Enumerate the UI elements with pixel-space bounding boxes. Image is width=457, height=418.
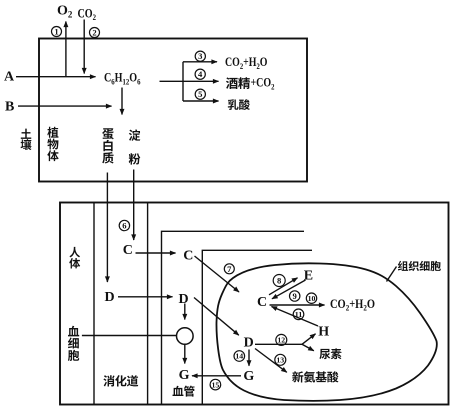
num 9 (290, 291, 300, 301)
label 酒精 (226, 77, 238, 89)
wire: C to E double arrow up (269, 278, 298, 295)
svg-text:1: 1 (54, 27, 58, 37)
svg-text:H: H (318, 325, 329, 340)
svg-text:10: 10 (308, 294, 316, 303)
svg-text:CO2+H2O: CO2+H2O (330, 297, 375, 313)
svg-text:8: 8 (277, 276, 282, 286)
wire: fork up to H (302, 334, 316, 345)
wire: arrow 5 to lactate (183, 100, 219, 102)
svg-text:4: 4 (198, 69, 203, 79)
num 15 (210, 379, 221, 390)
wire: glucose down arrow (121, 88, 123, 115)
label 淀粉 (129, 129, 140, 140)
num 4 (195, 69, 205, 79)
svg-text:3: 3 (198, 51, 202, 61)
svg-text:E: E (304, 269, 313, 284)
svg-text:12: 12 (277, 336, 285, 345)
wire: blood-cell pointer line (82, 335, 176, 337)
svg-text:A: A (4, 69, 15, 84)
svg-text:C6H12O6: C6H12O6 (104, 71, 141, 87)
label 消化道 (103, 375, 114, 386)
svg-text:CO2+H2O: CO2+H2O (225, 55, 268, 71)
box: plant-body outer box (39, 39, 307, 182)
wire: D fork stem (255, 343, 302, 345)
wire: branch input (160, 80, 184, 82)
num 1 (52, 27, 62, 37)
svg-text:2: 2 (92, 28, 96, 38)
wire: C1 to C2 arrow (136, 252, 176, 254)
wire: starch line down (6) (133, 170, 135, 241)
box: human-body outer box (60, 203, 449, 405)
wire: B arrow (18, 105, 112, 107)
wire: D to new amino acid diagonal (255, 349, 287, 373)
label 尿素 (319, 349, 330, 359)
svg-text:C: C (183, 249, 193, 264)
wire: CO2 down arrow (83, 20, 85, 74)
num 6 (119, 220, 129, 230)
wire: O2 up arrow (65, 22, 67, 77)
wire: fork down to urea (302, 344, 314, 351)
label 乳酸 (228, 99, 239, 110)
pointer: tissue cell label line (387, 267, 397, 282)
svg-text:B: B (5, 100, 14, 115)
label 植物体 (47, 127, 58, 138)
svg-text:D: D (105, 290, 115, 305)
wire: D1 to D2 arrow (118, 296, 173, 298)
wire: arrow 4 to alcohol (183, 80, 219, 82)
num 3 (195, 51, 205, 61)
label 新氨基酸 (292, 371, 303, 382)
wire: C to CO2+H2O arrow (270, 304, 325, 306)
svg-text:14: 14 (235, 352, 243, 361)
wire: H to C arrow (272, 307, 319, 327)
num 2 (90, 28, 100, 38)
wire: branch vertical (182, 62, 184, 101)
svg-text:C: C (257, 295, 267, 310)
svg-text:G: G (179, 368, 190, 383)
num 10 (306, 293, 316, 303)
svg-text:9: 9 (293, 291, 297, 301)
num 14 (234, 351, 245, 362)
num 12 (276, 334, 287, 345)
svg-text:D: D (179, 292, 189, 307)
wire: 7 diagonal C2 to cellC (195, 256, 240, 292)
blob: tissue cell boundary (216, 263, 436, 401)
svg-text:13: 13 (276, 356, 284, 365)
num 5 (195, 89, 205, 99)
wire: column line x94 (93, 203, 95, 405)
svg-text:6: 6 (122, 221, 127, 231)
num 13 (275, 354, 286, 365)
wire: A to C6H12O6 arrow (16, 76, 96, 78)
wire: arrow 3 to CO2+H2O (183, 61, 217, 63)
wire: protein line down (106, 173, 108, 283)
wire: column line x147.6 (147, 203, 149, 405)
num 11 (293, 309, 304, 320)
svg-text:11: 11 (295, 310, 303, 319)
svg-text:15: 15 (212, 380, 220, 389)
label 组织细胞 (398, 261, 408, 271)
box: blood vessel inner line (202, 250, 312, 404)
num 7 (224, 264, 234, 274)
svg-text:+CO2: +CO2 (251, 76, 275, 92)
svg-text:7: 7 (227, 264, 232, 274)
wire: E to C double arrow down (272, 280, 306, 299)
wire: D2 down arrow (184, 304, 186, 320)
wire: diagonal D2 to cellD (194, 298, 239, 336)
label 血细胞 (68, 326, 79, 337)
num 8 (273, 275, 285, 287)
wire: 15 arrow cellG to vesselG (192, 375, 241, 377)
svg-text:C: C (123, 243, 133, 258)
box: digestive tract inner line (162, 231, 305, 404)
label 人体 (69, 247, 80, 258)
svg-text:5: 5 (198, 89, 202, 99)
label 蛋白质 (102, 128, 114, 139)
node: blood cell circle (177, 328, 194, 345)
svg-text:G: G (243, 369, 254, 384)
wire: D to G down arrow (248, 350, 250, 366)
label 土壤 (21, 129, 31, 139)
svg-text:D: D (244, 335, 254, 350)
wire: circle to G arrow (184, 345, 186, 364)
label 血管 (173, 386, 184, 396)
